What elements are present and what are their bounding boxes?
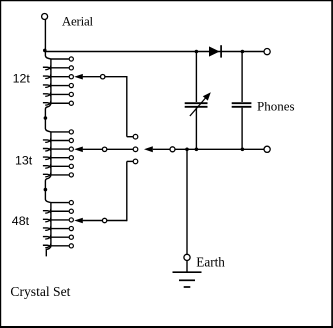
coil turn L2 t3-t4 — [50, 149, 52, 158]
phones terminal bottom — [264, 146, 270, 152]
coil tap terminal L2.5 — [69, 164, 73, 168]
node coil junction 2 — [44, 188, 48, 192]
wire wiper1 — [83, 76, 101, 78]
wire wiper3 — [83, 220, 103, 222]
coil turn L3 t4-t5 — [50, 229, 52, 238]
coil tap terminal L3.5 — [69, 235, 73, 239]
coil crossover L1 j2 — [43, 66, 51, 70]
coil crossover L2 j6 — [43, 173, 51, 177]
coil crossover L2 j3 — [43, 147, 51, 151]
node coil junction 1 — [44, 116, 48, 120]
node phones junction — [241, 148, 245, 152]
label Earth — [196, 254, 225, 269]
coil tap terminal L2.2 — [69, 138, 73, 142]
svg-text:48t: 48t — [12, 214, 30, 228]
coil tap line L3.4 — [51, 228, 69, 230]
coil turn L1 t1-t2 — [50, 59, 52, 68]
coil crossover L3 j2 — [43, 209, 51, 213]
coil turn L1 t5-t6 — [50, 94, 52, 103]
switch wiper circle — [170, 147, 175, 152]
coil tap terminal L1.2 — [69, 66, 73, 70]
switch contact B — [133, 147, 138, 152]
wiper arrow 13t — [74, 147, 83, 153]
phones terminal top — [264, 49, 270, 55]
coil tap line L2.3 — [51, 148, 69, 150]
label 13t — [15, 154, 33, 168]
coil tap terminal L2.6 — [69, 173, 73, 177]
coil tap line L1.5 — [51, 93, 69, 95]
earth terminal — [184, 254, 190, 260]
coil tap terminal L3.6 — [69, 244, 73, 248]
coil crossover L3 j6 — [43, 244, 51, 248]
coil crossover L2 j5 — [43, 164, 51, 168]
coil tap line L3.6 — [51, 245, 69, 247]
coil tap line L1.2 — [51, 67, 69, 69]
wire coil link 2-3 — [45, 175, 51, 203]
wire top rail — [45, 51, 264, 53]
coil turn L3 t3-t4 — [50, 220, 52, 229]
coil crossover L2 j2 — [43, 138, 51, 142]
wire wiper2 — [83, 148, 103, 150]
wire coil entry 1 — [45, 52, 51, 60]
switch wiper arrow — [144, 146, 153, 152]
node varcap junction — [195, 148, 199, 152]
coil tap line L1.3 — [51, 76, 69, 78]
coil turn L3 t1-t2 — [50, 203, 52, 212]
wiper contact circle 48t — [102, 218, 106, 222]
wiper contact circle 13t — [102, 147, 106, 151]
svg-text:Phones: Phones — [257, 98, 295, 113]
node aerial junction — [43, 49, 47, 53]
svg-text:Earth: Earth — [196, 254, 225, 269]
node diode-varcap junction — [195, 50, 199, 54]
wiper arrow 12t — [74, 74, 83, 80]
wire varcap bottom — [195, 108, 197, 150]
coil tap terminal L1.6 — [69, 101, 73, 105]
wire coil link 1-2 — [45, 103, 51, 132]
coil turn L3 t2-t3 — [50, 211, 52, 220]
coil crossover L1 j5 — [43, 92, 51, 96]
wire varcap top — [195, 52, 197, 103]
wire coil end — [46, 246, 51, 257]
capacitor phones C1 — [232, 103, 252, 107]
coil turn L2 t1-t2 — [50, 132, 52, 141]
coil tap line L2.6 — [51, 174, 69, 176]
wire earth stem — [186, 261, 188, 273]
coil turn L1 t4-t5 — [50, 86, 52, 95]
coil crossover L1 j3 — [43, 74, 51, 78]
wire aerial down — [44, 20, 46, 52]
coil tap terminal L1.1 — [69, 57, 73, 61]
coil tap line L2.2 — [51, 140, 69, 142]
switch contact C — [133, 159, 138, 164]
coil turn L2 t2-t3 — [50, 141, 52, 150]
wiper contact circle 12t — [101, 75, 105, 79]
label 12t — [13, 72, 31, 86]
svg-text:13t: 13t — [15, 154, 33, 168]
coil crossover L3 j4 — [43, 226, 51, 230]
coil turn L1 t3-t4 — [50, 77, 52, 86]
coil crossover L3 j5 — [43, 235, 51, 239]
coil tap line L1.6 — [51, 102, 69, 104]
label Phones — [257, 98, 295, 113]
coil tap line L3.5 — [51, 236, 69, 238]
coil tap terminal L3.3 — [69, 218, 73, 222]
variable capacitor VC1 — [185, 92, 211, 116]
coil turn L3 t5-t6 — [50, 237, 52, 246]
coil tap terminal L3.1 — [69, 201, 73, 205]
wire wiper3 to switch — [107, 161, 133, 221]
coil tap line L3.2 — [51, 210, 69, 212]
coil tap terminal L3.4 — [69, 226, 73, 230]
coil turn L1 t2-t3 — [50, 68, 52, 77]
coil tap line L3.3 — [51, 219, 69, 221]
coil tap line L2.5 — [51, 165, 69, 167]
node diode-phones junction — [241, 50, 245, 54]
aerial terminal — [42, 14, 48, 20]
coil tap terminal L2.1 — [69, 130, 73, 134]
svg-text:12t: 12t — [13, 72, 31, 86]
coil tap terminal L3.2 — [69, 209, 73, 213]
label Aerial — [62, 14, 94, 29]
coil crossover L3 j3 — [43, 218, 51, 222]
coil tap line L1.1 — [51, 58, 69, 60]
label Crystal Set — [10, 284, 70, 299]
coil tap terminal L2.3 — [69, 147, 73, 151]
wire wiper2 to switch — [107, 148, 133, 150]
coil turn L2 t5-t6 — [50, 166, 52, 175]
coil turn L2 t4-t5 — [50, 158, 52, 167]
wire phones-cap bottom — [241, 108, 243, 150]
coil tap line L2.1 — [51, 131, 69, 133]
wiper arrow 48t — [74, 218, 83, 224]
switch contact A — [133, 134, 138, 139]
node earth junction — [185, 148, 189, 152]
wire phones-cap top — [241, 52, 243, 103]
coil tap terminal L1.5 — [69, 92, 73, 96]
wire switch wiper — [153, 148, 170, 150]
coil crossover L2 j4 — [43, 155, 51, 159]
svg-text:Aerial: Aerial — [62, 14, 94, 29]
diode D1 — [209, 45, 221, 57]
wire row2 rail — [175, 148, 264, 150]
coil tap line L3.1 — [51, 202, 69, 204]
wire wiper1 to switch — [105, 76, 133, 137]
coil tap line L1.4 — [51, 85, 69, 87]
label 48t — [12, 214, 30, 228]
ground symbol — [173, 272, 202, 287]
coil tap line L2.4 — [51, 157, 69, 159]
coil crossover L1 j6 — [43, 101, 51, 105]
coil tap terminal L2.4 — [69, 156, 73, 160]
coil tap terminal L1.4 — [69, 83, 73, 87]
coil tap terminal L1.3 — [69, 75, 73, 79]
svg-text:Crystal Set: Crystal Set — [10, 284, 70, 299]
coil crossover L1 j4 — [43, 83, 51, 87]
wire earth down — [186, 149, 188, 254]
